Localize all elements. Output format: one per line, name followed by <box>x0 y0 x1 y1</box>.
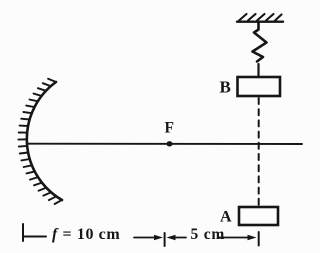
svg-text:A: A <box>220 209 232 226</box>
svg-text:F: F <box>165 120 174 137</box>
svg-text:5 cm: 5 cm <box>191 226 226 243</box>
dimension line 5cm right <box>219 237 249 239</box>
mirror hatching <box>18 79 62 204</box>
arrowhead right at mid tick <box>154 235 163 240</box>
svg-text:f = 10 cm: f = 10 cm <box>52 226 120 243</box>
dashed line B to A <box>258 98 260 206</box>
dimension tick left (mirror vertex) <box>22 224 24 241</box>
arrowhead left of 5cm <box>167 235 176 240</box>
dimension line to mid tick <box>134 237 156 239</box>
block B <box>238 77 281 96</box>
focal point F <box>167 141 173 146</box>
spring S <box>253 22 267 62</box>
concave mirror M <box>27 82 62 200</box>
block A <box>239 207 278 225</box>
connector spring to block B <box>257 64 259 76</box>
arrowhead right at right tick <box>248 235 257 240</box>
optical axis <box>28 143 302 145</box>
dimension stub 5cm left <box>174 237 186 239</box>
ceiling <box>237 21 283 23</box>
svg-text:B: B <box>220 77 231 96</box>
dimension tick right (object line) <box>258 232 260 246</box>
ceiling hatching <box>239 14 282 21</box>
dimension stub left <box>24 236 46 238</box>
dimension tick middle (focus position) <box>164 233 166 246</box>
